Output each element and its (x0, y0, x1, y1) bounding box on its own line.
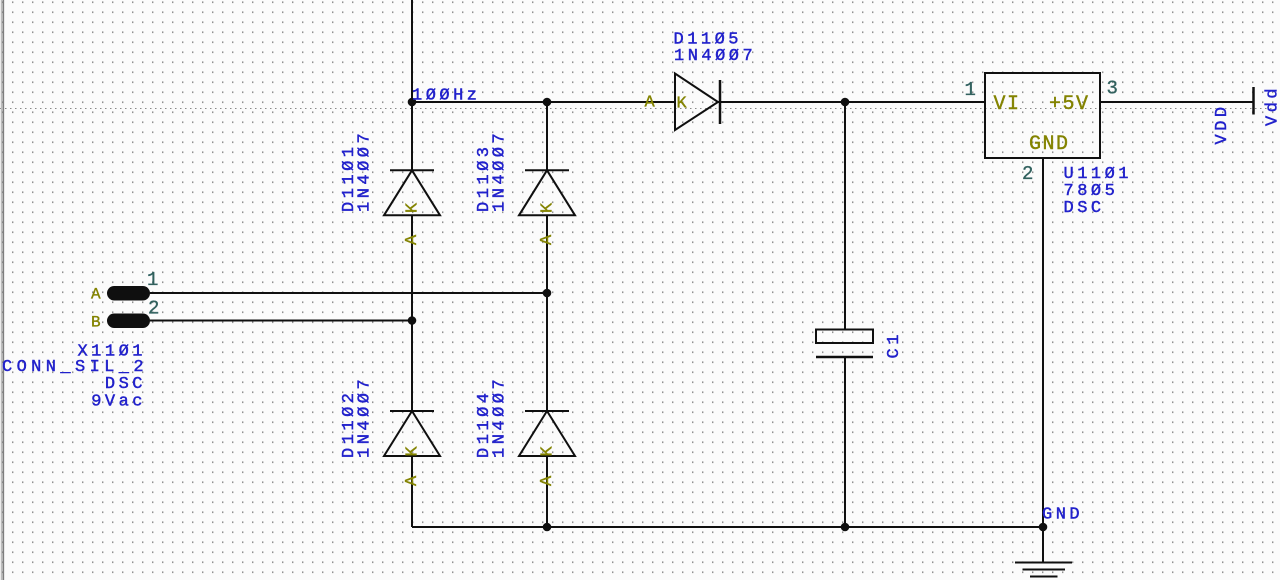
svg-text:Vdd: Vdd (1264, 85, 1280, 126)
svg-text:2: 2 (148, 298, 159, 320)
svg-text:1ØØHz: 1ØØHz (412, 87, 481, 106)
svg-text:K: K (677, 95, 688, 114)
svg-text:C1: C1 (885, 331, 904, 358)
svg-text:A: A (403, 475, 422, 486)
svg-text:K: K (404, 202, 423, 213)
svg-text:1N4ØØ7: 1N4ØØ7 (356, 130, 375, 212)
svg-text:1: 1 (147, 269, 158, 291)
svg-text:A: A (538, 234, 557, 245)
svg-text:A: A (645, 94, 656, 113)
svg-text:A: A (538, 475, 557, 486)
svg-text:B: B (91, 314, 101, 332)
svg-text:K: K (404, 445, 423, 456)
svg-text:DSC: DSC (105, 375, 146, 394)
svg-text:VI: VI (994, 93, 1021, 116)
svg-text:K: K (539, 445, 558, 456)
svg-text:K: K (539, 202, 558, 213)
svg-text:3: 3 (1107, 78, 1118, 100)
svg-text:1N4ØØ7: 1N4ØØ7 (356, 376, 375, 458)
svg-text:+5V: +5V (1049, 93, 1090, 116)
svg-text:1N4ØØ7: 1N4ØØ7 (491, 376, 510, 458)
svg-text:2: 2 (1022, 163, 1033, 185)
svg-text:1: 1 (965, 79, 976, 101)
svg-text:9Vac: 9Vac (91, 393, 146, 412)
svg-text:GND: GND (1042, 506, 1083, 525)
svg-text:GND: GND (1029, 133, 1070, 156)
svg-text:A: A (403, 234, 422, 245)
svg-text:DSC: DSC (1064, 199, 1105, 218)
svg-text:A: A (91, 286, 101, 304)
svg-text:1N4ØØ7: 1N4ØØ7 (674, 47, 756, 66)
svg-text:1N4ØØ7: 1N4ØØ7 (491, 130, 510, 212)
svg-text:VDD: VDD (1213, 103, 1232, 144)
